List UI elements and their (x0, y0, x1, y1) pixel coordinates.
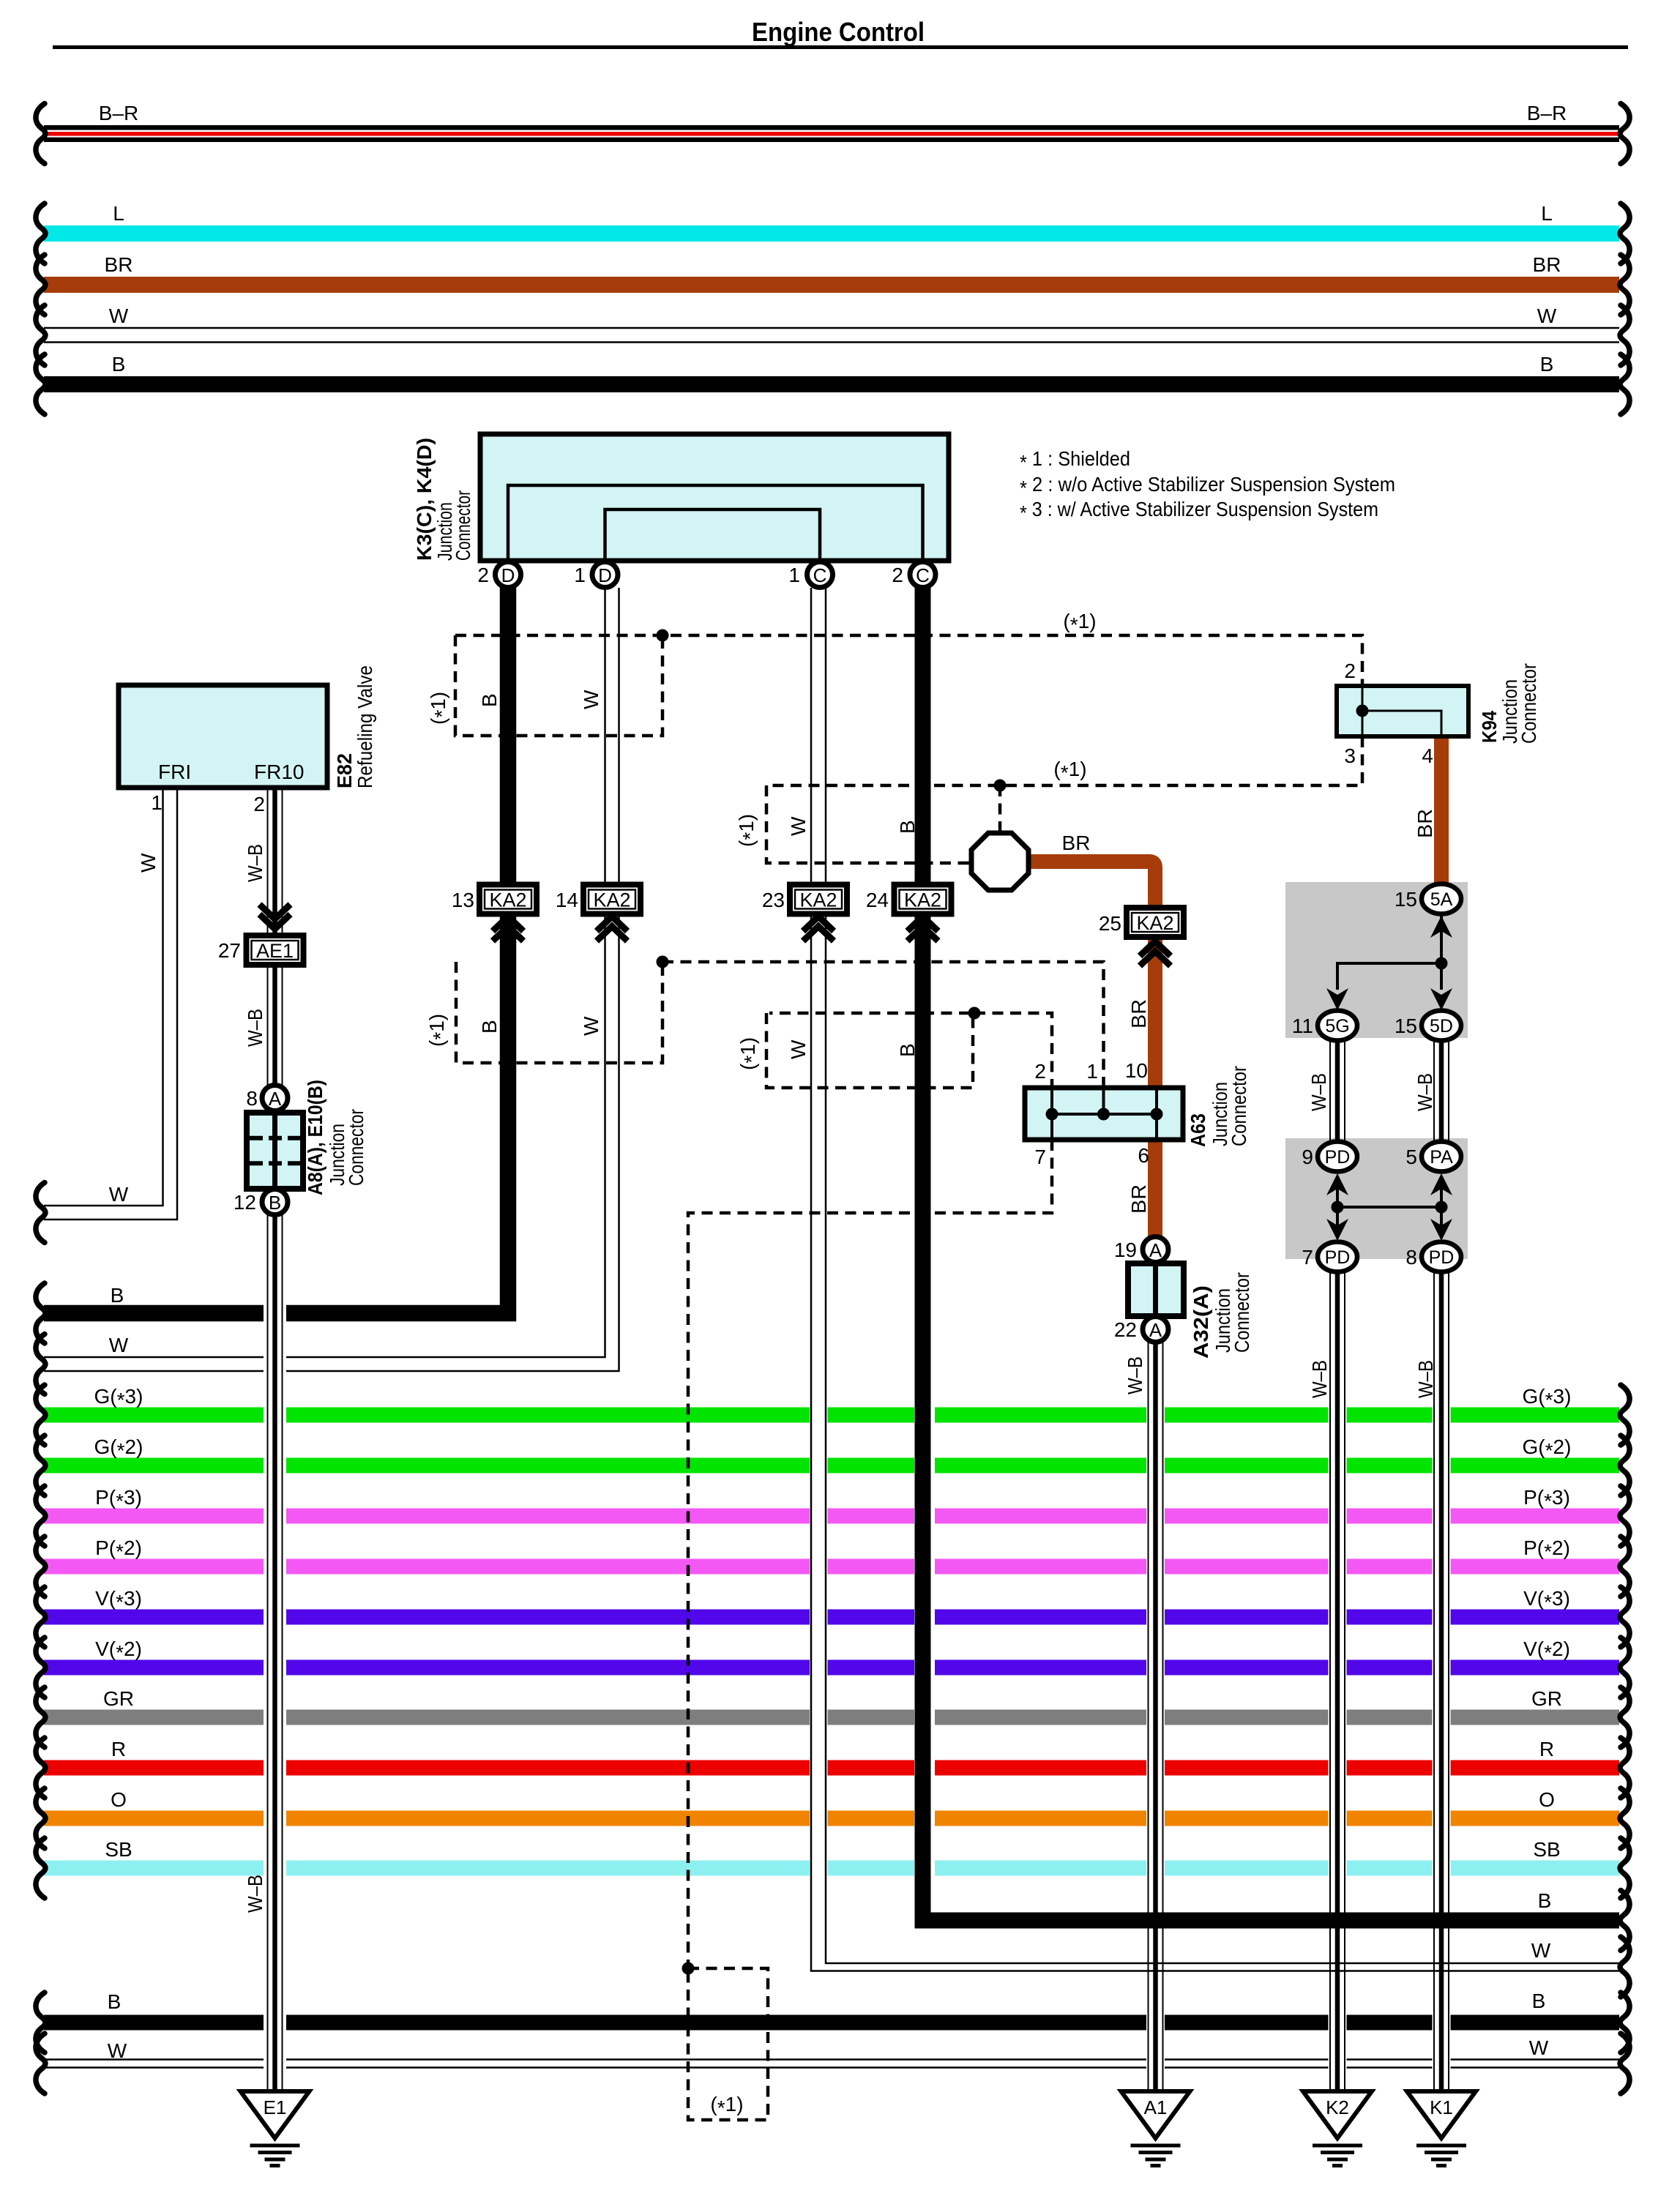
svg-text:B: B (478, 1020, 501, 1034)
svg-text:D: D (598, 564, 612, 586)
svg-text:L: L (1541, 202, 1553, 225)
wire BR from KA2 25 to A63 pin 10 (1127, 937, 1155, 1088)
svg-text:2: 2 (253, 793, 265, 815)
svg-text:W–B: W–B (1414, 1360, 1437, 1398)
svg-text:W: W (137, 853, 160, 873)
svg-text:B: B (111, 1284, 124, 1307)
svg-text:SB: SB (1533, 1838, 1560, 1861)
svg-text:A: A (1149, 1319, 1162, 1341)
wire G(*3) (36, 1385, 1629, 1445)
svg-text:5G: 5G (1325, 1016, 1349, 1037)
svg-text:W–B: W–B (1124, 1356, 1146, 1394)
pin 11 5G (1292, 1011, 1357, 1041)
connector 27 AE1 (218, 935, 304, 965)
svg-text:(*1): (*1) (735, 814, 761, 847)
svg-text:AE1: AE1 (256, 940, 294, 962)
wire B-R top (36, 102, 1629, 164)
svg-text:A: A (1149, 1239, 1162, 1261)
svg-text:24: 24 (866, 889, 889, 911)
svg-text:W: W (109, 305, 129, 327)
ground K1 (1407, 2091, 1476, 2166)
svg-text:B–R: B–R (99, 102, 138, 124)
svg-text:10: 10 (1125, 1059, 1148, 1082)
svg-text:E82: E82 (333, 753, 356, 788)
svg-text:1: 1 (574, 564, 586, 586)
svg-text:B: B (112, 353, 126, 376)
pin 5 PA (1405, 1142, 1461, 1172)
svg-text:A8(A), E10(B): A8(A), E10(B) (304, 1080, 326, 1195)
component E82 Refueling Valve (119, 665, 376, 815)
svg-text:V(*2): V(*2) (1523, 1637, 1570, 1664)
connector 25 KA2 (1099, 908, 1184, 937)
svg-text:W–B: W–B (1307, 1073, 1330, 1111)
svg-text:V(*3): V(*3) (95, 1587, 142, 1613)
svg-text:1: 1 (1086, 1060, 1098, 1083)
pin 2 C of K3/K4 (892, 562, 936, 588)
wire GR (36, 1687, 1629, 1747)
svg-text:* 2 : w/o Active Stabilizer Su: * 2 : w/o Active Stabilizer Suspension S… (1020, 473, 1395, 499)
wire SB (36, 1838, 1629, 1898)
chevrons below 14 KA2 (597, 916, 627, 931)
wire V(*2) (36, 1637, 1629, 1698)
connector 13 KA2 (452, 885, 537, 914)
svg-text:9: 9 (1302, 1146, 1313, 1168)
svg-text:W–B: W–B (244, 844, 266, 882)
chevrons below 23 KA2 (803, 916, 834, 931)
svg-text:A32(A): A32(A) (1190, 1285, 1212, 1359)
svg-text:W: W (580, 1016, 602, 1036)
svg-text:KA2: KA2 (904, 889, 941, 911)
svg-text:G(*3): G(*3) (94, 1385, 143, 1411)
svg-text:27: 27 (218, 939, 241, 962)
svg-text:W: W (1531, 1939, 1551, 1962)
svg-text:3: 3 (1344, 744, 1356, 767)
chevrons below 13 KA2 (493, 916, 523, 931)
svg-text:P(*3): P(*3) (95, 1486, 142, 1512)
svg-text:2: 2 (892, 564, 903, 586)
svg-text:A1: A1 (1144, 2096, 1168, 2118)
svg-text:K3(C), K4(D): K3(C), K4(D) (413, 438, 436, 561)
junction connector A8(A), E10(B) (247, 1080, 367, 1195)
svg-text:W: W (787, 816, 810, 836)
svg-text:G(*2): G(*2) (1523, 1435, 1572, 1462)
shield line from box D to A63 pin 2 (974, 1013, 1052, 1088)
svg-text:B: B (896, 820, 919, 834)
svg-text:(*1): (*1) (736, 1037, 763, 1070)
svg-text:B: B (108, 1990, 122, 2013)
svg-text:A63: A63 (1187, 1113, 1209, 1147)
svg-text:5A: 5A (1430, 889, 1453, 910)
svg-text:(*1): (*1) (1053, 758, 1086, 784)
svg-text:11: 11 (1292, 1015, 1313, 1037)
wire B from K3 pin 2C to bottom right (923, 588, 1630, 1951)
svg-text:BR: BR (1062, 832, 1091, 854)
svg-text:14: 14 (556, 889, 578, 911)
pin 8 PD (1405, 1242, 1461, 1272)
svg-text:PA: PA (1430, 1147, 1453, 1168)
svg-text:15: 15 (1395, 1015, 1417, 1037)
wire W from E82 pin FRI to left edge (36, 788, 177, 1243)
svg-text:(*1): (*1) (427, 692, 453, 725)
svg-text:B: B (896, 1043, 919, 1057)
svg-text:W–B: W–B (1414, 1073, 1436, 1111)
svg-text:Refueling Valve: Refueling Valve (354, 665, 376, 788)
svg-text:O: O (111, 1788, 127, 1811)
svg-text:5: 5 (1405, 1146, 1417, 1168)
svg-text:BR: BR (1127, 999, 1150, 1028)
shield box C around W and B wires with octagon (735, 785, 1000, 863)
svg-text:B: B (269, 1192, 281, 1214)
svg-text:22: 22 (1114, 1318, 1137, 1341)
svg-text:Connector: Connector (1517, 663, 1540, 744)
pin 15 5A (1395, 884, 1461, 914)
svg-text:G(*2): G(*2) (94, 1435, 143, 1462)
svg-text:P(*2): P(*2) (1523, 1536, 1570, 1563)
pin 12 B junction (234, 1189, 288, 1215)
halos (264, 1302, 1451, 2076)
shield line (*1) from K94 pin 3 to box C (766, 736, 1362, 785)
wire BR from A63 pin 6 to A32 pin 19 (1127, 1140, 1155, 1239)
wire BR from octagon to KA2 25 (1028, 832, 1155, 908)
svg-text:K1: K1 (1430, 2096, 1453, 2118)
ground K2 (1303, 2091, 1372, 2166)
node on shield box B (657, 956, 669, 968)
svg-text:2: 2 (1344, 660, 1356, 682)
svg-text:8: 8 (246, 1087, 258, 1110)
shield box D around W and B wires (736, 1013, 973, 1088)
svg-text:12: 12 (234, 1191, 256, 1214)
svg-text:V(*2): V(*2) (95, 1637, 142, 1664)
svg-text:KA2: KA2 (1136, 912, 1173, 934)
svg-text:Connector: Connector (1231, 1272, 1253, 1353)
svg-text:5D: 5D (1430, 1016, 1453, 1037)
connector 14 KA2 (556, 885, 641, 914)
svg-text:P(*2): P(*2) (95, 1536, 142, 1563)
svg-text:8: 8 (1405, 1246, 1417, 1269)
chevrons below 24 KA2 (908, 916, 938, 931)
wire BR from K94 pin 4 to 5A (1414, 736, 1441, 886)
svg-text:1: 1 (151, 791, 163, 814)
wire 5A to 5G and 5D (1326, 914, 1452, 1010)
svg-text:A: A (269, 1088, 282, 1110)
svg-text:Engine Control: Engine Control (752, 17, 925, 47)
wire B from K3 pin 2D through KA2 13 to left edge (36, 588, 508, 1343)
title Engine Control (53, 17, 1628, 49)
svg-text:BR: BR (105, 253, 133, 276)
ground E1 (241, 2091, 310, 2166)
svg-text:1: 1 (788, 564, 800, 586)
svg-text:W: W (1537, 305, 1557, 327)
svg-text:PD: PD (1325, 1147, 1351, 1168)
svg-text:G(*3): G(*3) (1523, 1385, 1572, 1411)
svg-text:* 3 : w/ Active Stabilizer Sus: * 3 : w/ Active Stabilizer Suspension Sy… (1020, 498, 1378, 524)
svg-text:B: B (478, 693, 501, 707)
wire R (36, 1738, 1629, 1798)
svg-text:FR10: FR10 (254, 761, 304, 783)
pin 15 5D (1395, 1011, 1461, 1041)
wire W-B from A32 pin 22 to ground A1 (1124, 1341, 1163, 2091)
wire W from K3 pin 1C to bottom right (811, 588, 1629, 1997)
svg-text:7: 7 (1302, 1246, 1313, 1269)
wire W-B PD 8 to ground K1 (1414, 1273, 1449, 2091)
shield line from box B to A63 pin 1 (662, 962, 1104, 1088)
junction connector A63 (1025, 1059, 1250, 1168)
wire B top (36, 353, 1629, 414)
svg-text:C: C (916, 564, 930, 586)
junction connector A32(A) (1128, 1263, 1253, 1359)
junction connector K3(C), K4(D) (413, 434, 949, 561)
svg-text:Connector: Connector (452, 490, 474, 561)
pin 8 A junction (246, 1086, 288, 1111)
svg-text:B: B (1532, 1990, 1546, 2012)
svg-text:C: C (813, 564, 827, 586)
svg-text:SB: SB (105, 1838, 132, 1861)
wire L top (36, 202, 1629, 264)
junction connector K94 (1337, 660, 1540, 767)
node on shield line A (657, 630, 669, 642)
svg-text:B: B (1540, 353, 1554, 376)
svg-text:23: 23 (762, 889, 785, 911)
pin 7 PD (1302, 1242, 1357, 1272)
chevrons below 25 KA2 (1140, 941, 1171, 956)
svg-text:PD: PD (1325, 1247, 1351, 1268)
svg-text:W–B: W–B (1308, 1360, 1331, 1398)
svg-text:L: L (113, 202, 124, 225)
svg-text:D: D (501, 564, 515, 586)
svg-text:GR: GR (1531, 1687, 1562, 1710)
svg-text:W: W (109, 1334, 129, 1356)
svg-text:BR: BR (1127, 1184, 1150, 1214)
svg-text:K94: K94 (1478, 711, 1501, 743)
svg-text:O: O (1539, 1788, 1555, 1811)
ground A1 (1121, 2091, 1190, 2166)
connector 23 KA2 (762, 885, 847, 914)
svg-text:* 1 : Shielded: * 1 : Shielded (1020, 447, 1130, 474)
svg-text:R: R (111, 1738, 126, 1760)
shield line from A63 pin 7 to bottom (*1) box (688, 1140, 1052, 1968)
svg-text:W–B: W–B (244, 1009, 266, 1047)
wire W-B from E82 pin FR10 to ground E1 (244, 788, 283, 2091)
wire W-B 5D to PA 5 (1414, 1041, 1449, 1141)
wire W top (36, 305, 1629, 365)
svg-text:B–R: B–R (1527, 102, 1567, 124)
svg-text:W–B: W–B (244, 1875, 266, 1913)
svg-text:P(*3): P(*3) (1523, 1486, 1570, 1512)
svg-text:R: R (1539, 1738, 1554, 1760)
svg-text:V(*3): V(*3) (1523, 1587, 1570, 1613)
shield box B around B and W wires (425, 962, 662, 1063)
wire W-B 5G to PD 9 (1307, 1041, 1345, 1141)
wire P(*3) (36, 1486, 1629, 1546)
svg-text:KA2: KA2 (593, 889, 630, 911)
wire G(*2) (36, 1435, 1629, 1495)
svg-text:W: W (109, 1183, 129, 1206)
wire V(*3) (36, 1587, 1629, 1647)
pin 1 D of K3/K4 (574, 562, 618, 588)
connector chevrons into AE1 (260, 914, 291, 929)
svg-text:Connector: Connector (345, 1109, 367, 1186)
svg-text:FRI: FRI (158, 761, 191, 783)
svg-text:K2: K2 (1326, 2096, 1349, 2118)
gray connector block lower (1285, 1138, 1468, 1259)
legend shielded notes (1020, 447, 1395, 524)
svg-text:19: 19 (1114, 1239, 1137, 1261)
pin 2 D of K3/K4 (477, 562, 520, 588)
shield line (*1) from box A to K94 pin 2 (455, 610, 1362, 686)
svg-text:KA2: KA2 (799, 889, 837, 911)
svg-text:GR: GR (103, 1687, 134, 1710)
pin 22 A of A32 (1114, 1317, 1168, 1342)
wire W bottom full-width (36, 2033, 1629, 2094)
svg-text:E1: E1 (264, 2096, 287, 2118)
pin 9 PD (1302, 1142, 1357, 1172)
svg-text:(*1): (*1) (425, 1014, 452, 1047)
svg-text:KA2: KA2 (489, 889, 526, 911)
svg-text:2: 2 (1034, 1060, 1046, 1083)
svg-text:(*1): (*1) (1063, 610, 1096, 636)
wire W-B PD 7 to ground K2 (1308, 1273, 1345, 2091)
svg-text:W: W (1529, 2036, 1549, 2059)
svg-text:4: 4 (1422, 744, 1433, 767)
svg-text:13: 13 (452, 889, 474, 911)
shield box A around B and W wires (427, 635, 662, 736)
connector 24 KA2 (866, 885, 952, 914)
gray connector block upper (1285, 882, 1468, 1038)
wire BR top (36, 253, 1629, 315)
svg-text:B: B (1538, 1889, 1552, 1912)
svg-text:7: 7 (1034, 1146, 1046, 1168)
svg-text:BR: BR (1414, 809, 1436, 838)
pin 19 A of A32 (1114, 1237, 1168, 1263)
svg-text:W: W (580, 690, 602, 709)
wire B bottom full-width (36, 1990, 1629, 2053)
node on shield line C (994, 780, 1007, 792)
svg-text:W: W (787, 1039, 810, 1059)
wire W from K3 pin 1D through KA2 14 to left edge (36, 588, 619, 1394)
svg-text:6: 6 (1138, 1144, 1149, 1167)
svg-text:15: 15 (1395, 888, 1417, 911)
svg-text:(*1): (*1) (710, 2093, 743, 2119)
svg-text:2: 2 (477, 564, 489, 586)
svg-text:Connector: Connector (1228, 1066, 1250, 1146)
wire P(*2) (36, 1536, 1629, 1596)
svg-text:PD: PD (1429, 1247, 1455, 1268)
wires inside lower gray box PD/PA to PD/PD (1326, 1173, 1452, 1241)
svg-text:W: W (108, 2039, 127, 2062)
node on shield box D (968, 1007, 981, 1020)
svg-text:BR: BR (1533, 253, 1561, 276)
svg-text:25: 25 (1099, 912, 1121, 935)
wire O (36, 1788, 1629, 1848)
shield octagon (971, 833, 1028, 890)
node at bottom shield box (682, 1962, 695, 1975)
shield termination box (*1) bottom (688, 1968, 768, 2120)
pin 1 C of K3/K4 (788, 562, 832, 588)
